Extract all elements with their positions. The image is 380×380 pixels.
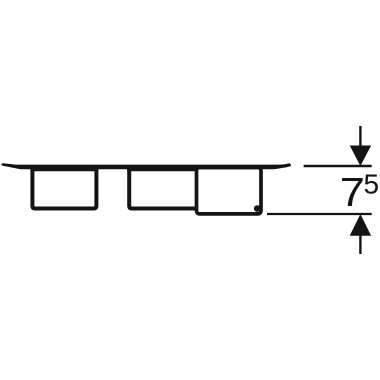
svg-text:5: 5 <box>364 168 380 199</box>
svg-text:7: 7 <box>340 170 365 215</box>
